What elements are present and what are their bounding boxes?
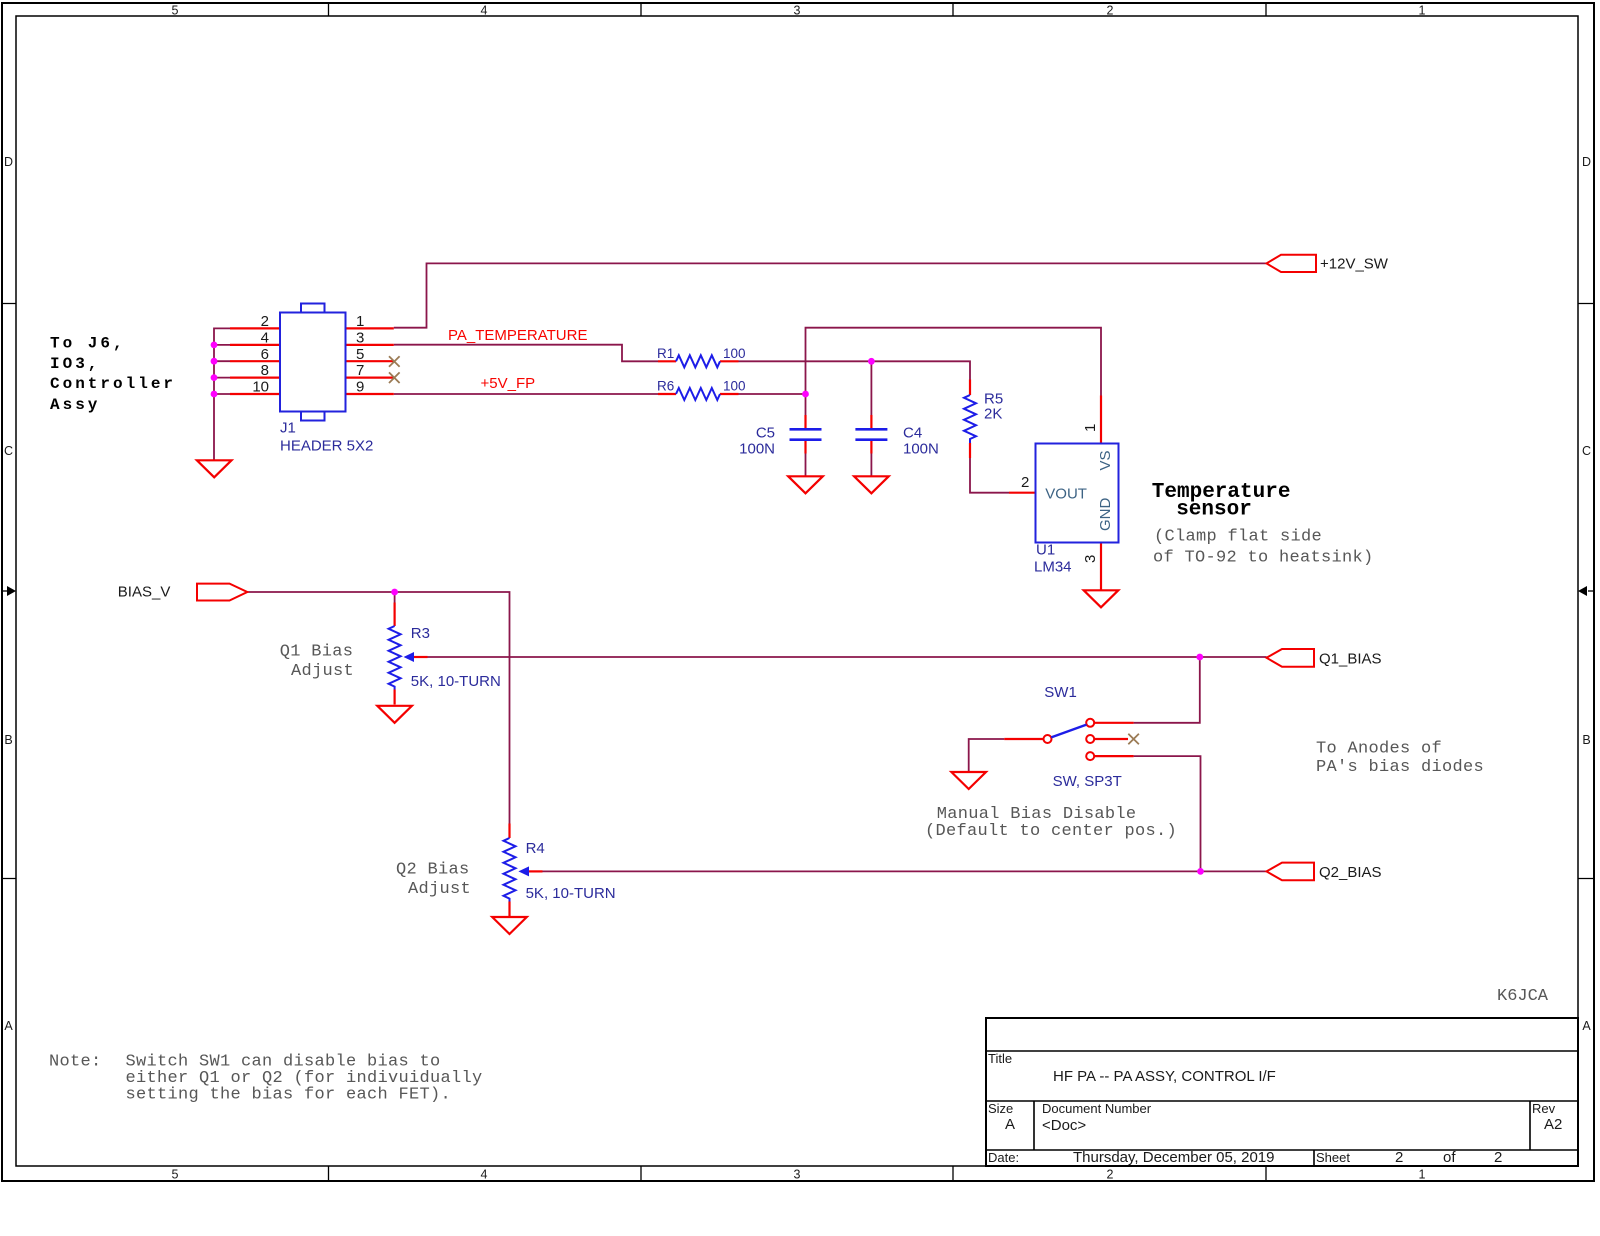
svg-text:A: A — [4, 1019, 13, 1033]
svg-text:Thursday, December 05, 2019: Thursday, December 05, 2019 — [1073, 1149, 1275, 1166]
svg-text:2: 2 — [1107, 1168, 1114, 1182]
svg-text:R4: R4 — [526, 840, 545, 857]
To Anodes annotation — [1316, 740, 1484, 777]
svg-text:To Anodes of: To Anodes of — [1316, 740, 1442, 759]
junction dot Q2_BIAS node — [1197, 868, 1204, 875]
svg-text:+5V_FP: +5V_FP — [481, 375, 536, 392]
switch SW1 SP3T — [1004, 684, 1133, 790]
svg-text:J1: J1 — [280, 420, 296, 437]
wire C5 lower lead to ground — [805, 454, 807, 477]
Q1 Bias Adjust annotation — [280, 643, 354, 682]
potentiometer R3 — [389, 603, 501, 705]
svg-text:(Clamp flat side: (Clamp flat side — [1154, 528, 1322, 547]
resistor R6 — [657, 379, 746, 400]
no-connect X on J1 pin 7 — [389, 372, 400, 383]
Temperature sensor annotation — [1152, 481, 1374, 567]
svg-text:Title: Title — [988, 1051, 1012, 1066]
svg-text:100N: 100N — [903, 441, 939, 458]
wire SW1 common to ground — [969, 739, 1005, 772]
svg-text:1: 1 — [1419, 1168, 1426, 1182]
svg-text:of TO-92 to heatsink): of TO-92 to heatsink) — [1153, 549, 1374, 568]
no-connect X on SW1 middle throw — [1128, 734, 1139, 745]
wire C4 lower lead to ground — [870, 454, 872, 477]
junction dot C4 node — [868, 358, 875, 365]
wire +5V_FP net: pin9 to R6 — [394, 393, 658, 395]
flag Q2_BIAS — [1267, 863, 1382, 881]
svg-text:1: 1 — [1419, 4, 1426, 18]
svg-text:Q1 Bias: Q1 Bias — [280, 643, 354, 662]
flag BIAS_V — [118, 584, 248, 601]
wire Q1_BIAS net: R3 wiper to flag and down to SW1 throw1 — [428, 657, 1267, 723]
svg-text:4: 4 — [481, 4, 488, 18]
svg-text:2: 2 — [1021, 474, 1029, 491]
svg-text:100: 100 — [723, 379, 746, 394]
svg-text:4: 4 — [261, 330, 269, 347]
svg-text:C5: C5 — [756, 425, 775, 442]
svg-text:8: 8 — [261, 362, 269, 379]
capacitor C5 — [739, 415, 821, 458]
svg-text:SW1: SW1 — [1044, 684, 1077, 701]
svg-text:Note:: Note: — [49, 1053, 102, 1072]
svg-text:3: 3 — [794, 4, 801, 18]
wire PA_TEMPERATURE net: pin3 to R1 — [394, 345, 658, 362]
junction dot BIAS_V node — [391, 589, 398, 596]
svg-text:Document Number: Document Number — [1042, 1101, 1152, 1116]
svg-text:VS: VS — [1097, 450, 1114, 470]
svg-text:SW, SP3T: SW, SP3T — [1053, 773, 1122, 790]
wire Q2_BIAS net: R4 wiper to flag — [543, 870, 1267, 872]
resistor R5 — [964, 380, 1003, 459]
svg-text:PA_TEMPERATURE: PA_TEMPERATURE — [448, 327, 587, 344]
svg-text:C: C — [1582, 444, 1591, 458]
svg-text:7: 7 — [356, 362, 364, 379]
svg-text:A: A — [1582, 1019, 1591, 1033]
svg-text:R1: R1 — [657, 346, 674, 361]
svg-text:2: 2 — [1494, 1149, 1502, 1166]
capacitor C4 — [855, 415, 938, 458]
svg-text:3: 3 — [1082, 555, 1099, 563]
svg-text:Date:: Date: — [988, 1150, 1019, 1165]
op-amp U1 temperature sensor LM34 — [1009, 396, 1119, 591]
svg-text:2: 2 — [1107, 4, 1114, 18]
svg-text:U1: U1 — [1036, 542, 1055, 559]
svg-text:D: D — [1582, 155, 1591, 169]
svg-text:5: 5 — [172, 4, 179, 18]
wire J1 left ground bus — [214, 328, 230, 460]
header J1 — [230, 304, 394, 455]
svg-text:3: 3 — [794, 1168, 801, 1182]
svg-text:1: 1 — [1082, 424, 1099, 432]
junction dots J1 bus — [211, 342, 218, 398]
svg-text:PA's bias diodes: PA's bias diodes — [1316, 758, 1484, 777]
svg-text:R3: R3 — [411, 625, 430, 642]
svg-text:5K, 10-TURN: 5K, 10-TURN — [526, 885, 616, 902]
svg-text:To J6,: To J6, — [50, 335, 126, 353]
flag Q1_BIAS — [1267, 649, 1382, 667]
svg-text:K6JCA: K6JCA — [1497, 987, 1549, 1006]
TITLEBLOCK — [986, 1018, 1578, 1166]
svg-text:BIAS_V: BIAS_V — [118, 584, 171, 601]
svg-text:Adjust: Adjust — [408, 880, 471, 899]
svg-text:LM34: LM34 — [1034, 559, 1072, 576]
ground below J1 — [197, 460, 232, 477]
svg-text:Q2 Bias: Q2 Bias — [396, 860, 470, 879]
Note annotation — [49, 1053, 483, 1105]
svg-text:Q2_BIAS: Q2_BIAS — [1319, 864, 1382, 881]
flag +12V_SW — [1267, 255, 1389, 273]
svg-text:Assy: Assy — [50, 396, 100, 414]
junction dot Q1_BIAS node — [1196, 654, 1203, 661]
svg-text:100N: 100N — [739, 441, 775, 458]
no-connect X on J1 pin 5 — [389, 356, 400, 367]
potentiometer R4 — [504, 824, 616, 917]
ground below U1 — [1084, 590, 1119, 607]
svg-text:VOUT: VOUT — [1045, 486, 1087, 503]
svg-text:Size: Size — [988, 1101, 1013, 1116]
svg-text:of: of — [1443, 1149, 1456, 1166]
svg-text:4: 4 — [481, 1168, 488, 1182]
Manual Bias Disable annotation — [925, 805, 1177, 841]
ground below C5 — [788, 476, 823, 493]
svg-text:C: C — [4, 444, 13, 458]
junction dot C5 node — [802, 391, 809, 398]
wire +12V net from J1 pin1 up and right to +12V_SW flag — [394, 263, 1267, 327]
resistor R1 — [657, 346, 746, 367]
svg-text:1: 1 — [356, 313, 364, 330]
svg-text:6: 6 — [261, 346, 269, 363]
svg-text:+12V_SW: +12V_SW — [1320, 255, 1389, 272]
svg-text:IO3,: IO3, — [50, 355, 100, 373]
svg-text:D: D — [4, 155, 13, 169]
svg-text:Rev: Rev — [1532, 1101, 1556, 1116]
svg-text:<Doc>: <Doc> — [1042, 1117, 1086, 1134]
svg-text:2: 2 — [261, 313, 269, 330]
wire BIAS_V net to R3 top and to R4 feed — [247, 592, 509, 824]
ground below SW1 common — [951, 772, 986, 789]
svg-text:GND: GND — [1097, 498, 1114, 532]
svg-text:sensor: sensor — [1176, 498, 1252, 521]
svg-text:Controller: Controller — [50, 375, 176, 393]
svg-text:A2: A2 — [1544, 1116, 1562, 1133]
To J6 annotation — [50, 335, 176, 414]
svg-text:10: 10 — [252, 379, 269, 396]
svg-text:9: 9 — [356, 379, 364, 396]
wire R6 output node to C5, up to U1 VS — [739, 328, 1102, 415]
ground below R4 — [492, 917, 527, 934]
svg-text:5: 5 — [172, 1168, 179, 1182]
ground below R3 — [377, 706, 412, 723]
svg-text:R6: R6 — [657, 379, 674, 394]
svg-text:100: 100 — [723, 346, 746, 361]
svg-text:B: B — [4, 733, 12, 747]
svg-text:Sheet: Sheet — [1316, 1150, 1350, 1165]
svg-text:Q1_BIAS: Q1_BIAS — [1319, 650, 1382, 667]
svg-text:HEADER 5X2: HEADER 5X2 — [280, 438, 373, 455]
ground below C4 — [854, 476, 889, 493]
svg-text:2K: 2K — [984, 406, 1002, 423]
svg-text:B: B — [1582, 733, 1590, 747]
svg-text:A: A — [1005, 1116, 1015, 1133]
svg-text:5K, 10-TURN: 5K, 10-TURN — [411, 673, 501, 690]
wire R1 output node to C4 and R5 — [739, 361, 1010, 492]
svg-text:5: 5 — [356, 346, 364, 363]
svg-text:2: 2 — [1395, 1149, 1403, 1166]
Q2 Bias Adjust annotation — [396, 860, 471, 899]
wire SW1 throw3 down to Q2_BIAS net — [1134, 756, 1201, 871]
svg-text:C4: C4 — [903, 425, 922, 442]
svg-text:Adjust: Adjust — [291, 662, 354, 681]
svg-text:HF PA -- PA ASSY, CONTROL I/F: HF PA -- PA ASSY, CONTROL I/F — [1053, 1068, 1276, 1085]
svg-text:(Default to center pos.): (Default to center pos.) — [925, 822, 1177, 841]
svg-text:setting the bias for each FET): setting the bias for each FET). — [126, 1086, 452, 1105]
svg-text:3: 3 — [356, 330, 364, 347]
